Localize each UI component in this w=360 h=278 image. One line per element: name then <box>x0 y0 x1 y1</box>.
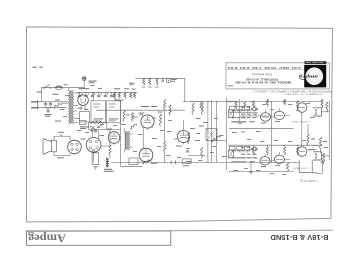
svg-text:PORTABLE B-15-ND: PORTABLE B-15-ND <box>246 77 278 80</box>
svg-text:1. EXT. AMP.: 1. EXT. AMP. <box>293 167 309 170</box>
svg-text:2. SPKR. JACK: 2. SPKR. JACK <box>291 120 311 123</box>
svg-text:4-61 REV 10-62 7-63 2-64: 4-61 REV 10-62 7-63 2-64 9-64 <box>227 66 301 69</box>
svg-text:MODEL NO. B-18-N & B-15-ND: MODEL NO. B-18-N & B-15-ND <box>235 81 291 85</box>
svg-text:REPRODUCED BY THE AMPEG COMPAN: REPRODUCED BY THE AMPEG COMPANY INC. LIN… <box>252 89 331 92</box>
svg-text:1. TRANSF. CO.: 1. TRANSF. CO. <box>303 179 318 182</box>
svg-text:B-18V & B-15ND: B-18V & B-15ND <box>270 233 328 240</box>
svg-text:Ampeg: Ampeg <box>28 231 66 245</box>
svg-text:SCHEMATIC NO. 1205 REV.: SCHEMATIC NO. 1205 REV. <box>284 92 323 95</box>
svg-text:Des Moines: Des Moines <box>251 72 272 75</box>
